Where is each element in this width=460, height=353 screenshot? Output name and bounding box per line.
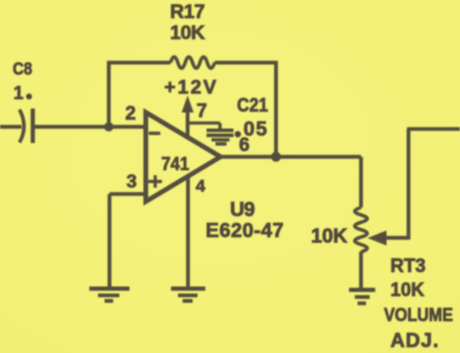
svg-text:R17: R17 [170, 1, 205, 23]
svg-text:10K: 10K [170, 22, 205, 44]
svg-text:10K: 10K [390, 279, 424, 301]
svg-text:3: 3 [127, 170, 137, 191]
svg-text:RT3: RT3 [390, 255, 425, 277]
svg-text:U9: U9 [230, 199, 255, 221]
svg-text:ADJ.: ADJ. [390, 330, 438, 352]
svg-text:10K: 10K [311, 226, 348, 248]
svg-text:C21: C21 [237, 95, 268, 117]
svg-text:+12V: +12V [164, 76, 216, 98]
svg-text:4: 4 [196, 176, 206, 195]
svg-text:7: 7 [197, 101, 208, 122]
svg-text:E620-47: E620-47 [206, 220, 284, 242]
svg-text:2: 2 [125, 104, 136, 125]
svg-text:1: 1 [14, 83, 24, 103]
svg-text:C8: C8 [13, 59, 33, 79]
svg-text:741: 741 [161, 153, 189, 174]
svg-text:05: 05 [244, 119, 268, 141]
svg-text:VOLUME: VOLUME [384, 305, 453, 325]
